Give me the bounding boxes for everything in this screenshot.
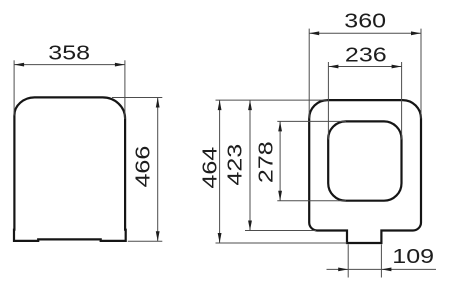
svg-text:278: 278 — [254, 141, 277, 183]
right view: 464 bottom arrowhead — [218, 233, 222, 243]
right view: 423 bottom arrowhead — [248, 221, 252, 231]
right view: 278 bottom extension line — [277, 200, 346, 202]
svg-text:358: 358 — [48, 41, 90, 64]
right view: 236 left extension line — [327, 62, 329, 140]
svg-text:464: 464 — [198, 147, 221, 189]
svg-text:466: 466 — [131, 146, 154, 188]
svg-text:236: 236 — [345, 43, 387, 66]
left view: 358 left arrowhead — [14, 63, 24, 67]
right view: 360 right extension line — [420, 29, 422, 119]
right view: seat top outline with hinge tab — [309, 100, 421, 243]
right view: 109 left arrowhead (outside, pointing right) — [338, 268, 348, 272]
left view: 466 bottom extension line — [128, 240, 163, 242]
right view: 109 right arrowhead (outside, pointing left) — [381, 268, 391, 272]
right view: 236 right extension line — [401, 62, 403, 140]
right view: 423 dimension line — [249, 100, 251, 230]
right view: 109 left extension line — [347, 244, 349, 277]
right view: 278 bottom arrowhead — [278, 191, 282, 201]
right view: lid inner outline — [328, 121, 401, 200]
left view: seat front outline — [14, 97, 126, 241]
left view: 466 top extension line — [112, 97, 162, 99]
right view: 423 top arrowhead — [248, 100, 252, 110]
right view: 278 top extension line — [277, 120, 346, 122]
right view: 360 dimension line — [309, 32, 421, 34]
right view: 464 top arrowhead — [218, 100, 222, 110]
svg-text:360: 360 — [344, 9, 386, 32]
right view: 360 left arrowhead — [309, 31, 319, 35]
svg-text:423: 423 — [223, 144, 246, 186]
svg-text:109: 109 — [392, 244, 434, 267]
right view: 109 right extension line — [380, 244, 382, 277]
left view: 466 top arrowhead — [156, 98, 160, 108]
right view: 423 bottom extension line — [245, 230, 316, 232]
left view: 466 dimension line — [157, 98, 159, 242]
left view: 358 right extension line — [124, 60, 126, 119]
right view: 464 bottom extension line — [216, 242, 348, 244]
right view: 109 dimension line — [327, 268, 437, 270]
left view: 466 bottom arrowhead — [156, 231, 160, 241]
right view: 360 right arrowhead — [411, 31, 421, 35]
left view: 358 left extension line — [13, 60, 15, 115]
right view: 360 left extension line — [308, 29, 310, 119]
right view: 278 dimension line — [279, 121, 281, 200]
left view: 358 right arrowhead — [115, 63, 125, 67]
right view: 236 dimension line — [328, 66, 401, 68]
left view: 358 dimension line — [14, 64, 125, 66]
right view: top shared extension line for 464 and 423 — [216, 99, 328, 101]
right view: 236 right arrowhead — [392, 65, 402, 69]
right view: 278 top arrowhead — [278, 121, 282, 131]
right view: 236 left arrowhead — [328, 65, 338, 69]
right view: 464 dimension line — [219, 100, 221, 243]
